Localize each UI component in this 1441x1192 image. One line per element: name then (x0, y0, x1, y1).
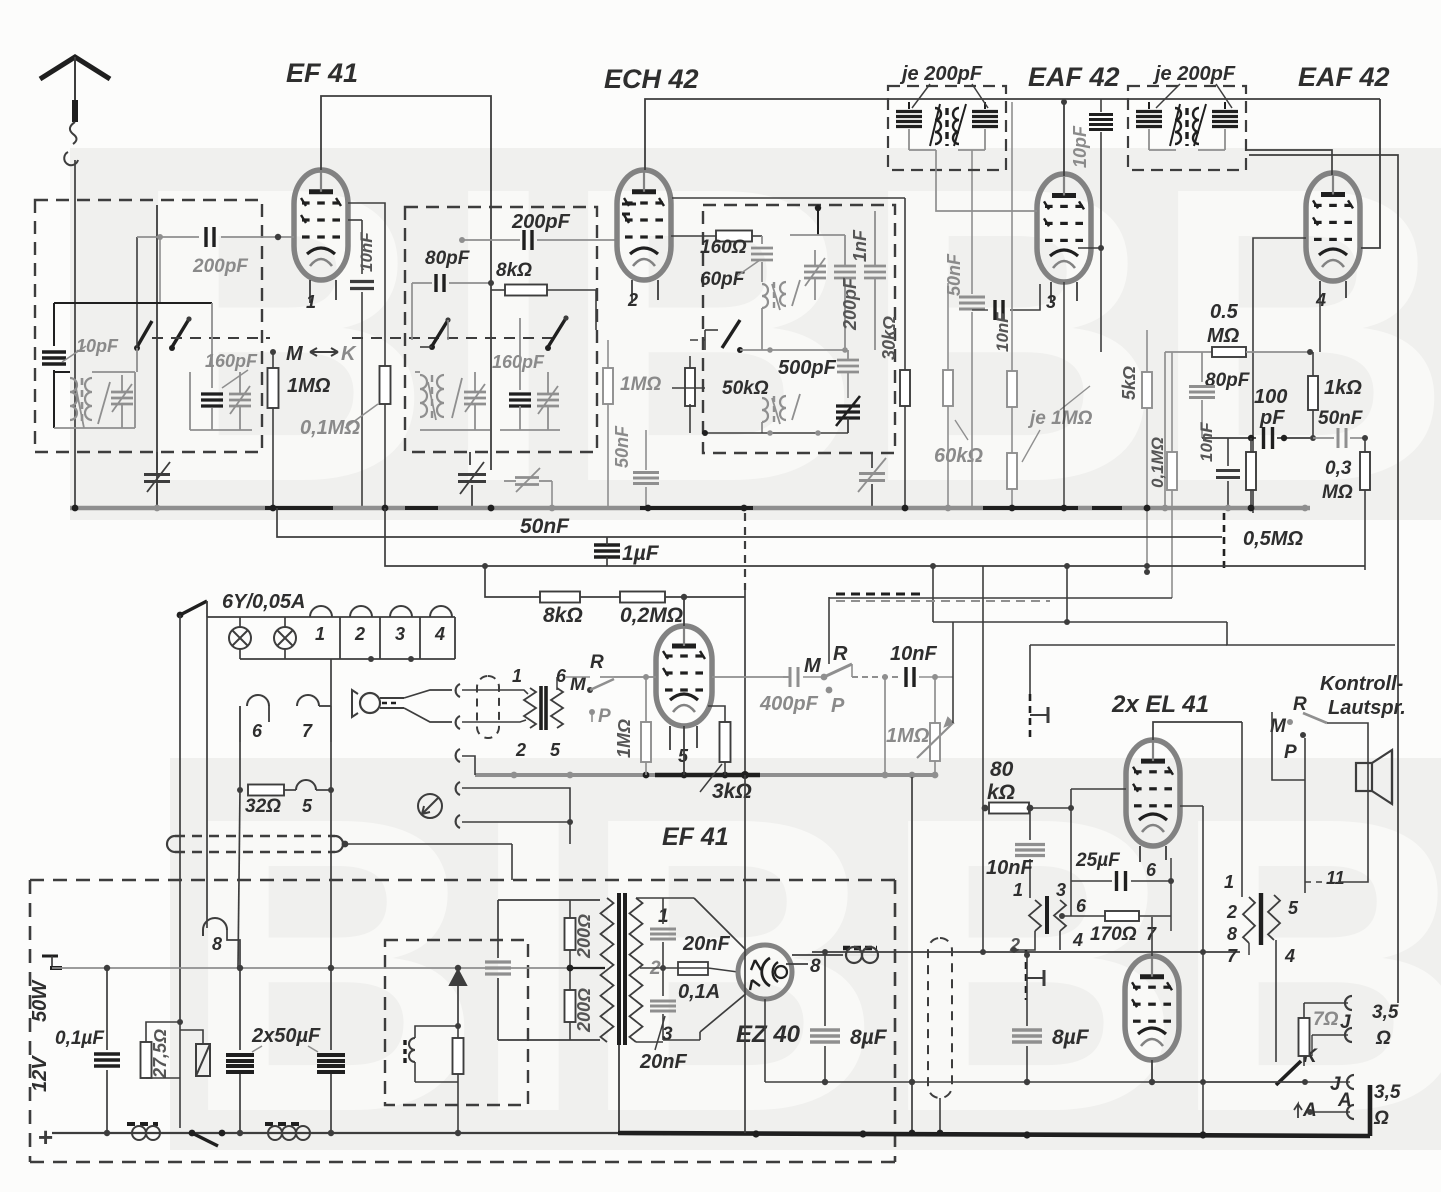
transformer primary loop (498, 899, 600, 901)
band switch linkage dashed (152, 337, 270, 339)
IF box 3 (dashed) (703, 205, 895, 453)
return rail mid (764, 999, 766, 1082)
svg-text:EAF 42: EAF 42 (1028, 62, 1120, 92)
svg-text:8kΩ: 8kΩ (543, 604, 583, 627)
resistor 1M grid V1 (272, 352, 274, 368)
supply switch (189, 1130, 196, 1137)
svg-text:10pF: 10pF (76, 336, 119, 356)
secondary to switch (1275, 940, 1277, 1062)
wire V1 anode top (321, 96, 491, 470)
svg-text:50nF: 50nF (1318, 408, 1364, 429)
svg-text:200pF: 200pF (840, 277, 860, 331)
wire heater drop 2 (206, 617, 208, 922)
resistors je 1M (1011, 102, 1013, 371)
dial lamp 1 (229, 627, 251, 649)
tube V7 EL41 lower (1125, 956, 1179, 1060)
pin 5 label V5 (669, 726, 671, 750)
box3 inner wires (817, 207, 819, 235)
svg-text:8: 8 (810, 956, 821, 977)
svg-text:60pF: 60pF (700, 269, 746, 290)
osc switch b (548, 318, 566, 347)
svg-text:25µF: 25µF (1075, 850, 1121, 871)
svg-text:160pF: 160pF (492, 352, 545, 372)
svg-text:2: 2 (354, 624, 365, 644)
wire oscillator top (54, 302, 212, 304)
tube V1 EF41 (294, 170, 348, 280)
capacitor 50nF IF (971, 150, 973, 294)
svg-text:3: 3 (1046, 292, 1056, 312)
resistor 0.2M AF (620, 592, 665, 603)
resistor 1M osc (607, 340, 609, 368)
pin V7 bottom (1151, 1060, 1153, 1082)
wires to EZ40 (694, 898, 748, 952)
svg-text:1MΩ: 1MΩ (287, 375, 331, 397)
tube V4 EAF42 (1306, 173, 1360, 281)
box3 bottom wire (705, 432, 848, 434)
pin 6 label V6 (1139, 846, 1141, 862)
switch R-M-P detector (821, 674, 828, 681)
svg-text:0.5: 0.5 (1210, 301, 1239, 323)
svg-text:7: 7 (1227, 946, 1238, 966)
band switch contact a (137, 321, 152, 347)
V7 grid cap symbol (1025, 950, 1028, 1000)
svg-text:1kΩ: 1kΩ (1324, 377, 1362, 399)
resistor 7R (1299, 1018, 1310, 1056)
svg-text:0,1MΩ: 0,1MΩ (1148, 437, 1167, 488)
svg-text:1: 1 (315, 624, 325, 644)
wire V3 topcap (1063, 102, 1065, 176)
capacitor 1uF (594, 543, 620, 546)
svg-text:160pF: 160pF (205, 351, 258, 371)
variable capacitor C1a (111, 391, 133, 394)
svg-text:170Ω: 170Ω (1090, 924, 1137, 945)
svg-text:50W: 50W (29, 979, 51, 1022)
svg-text:0,3: 0,3 (1325, 458, 1352, 479)
watermark band top (70, 148, 1441, 520)
antenna symbol (40, 57, 110, 79)
wire V6 topcap (1153, 722, 1242, 740)
svg-text:4: 4 (434, 624, 445, 644)
power switch lamp row (177, 612, 184, 619)
svg-text:A: A (1337, 1090, 1352, 1111)
variable cap osc2 (804, 265, 826, 268)
svg-text:10nF: 10nF (357, 232, 376, 272)
svg-text:8: 8 (1227, 924, 1237, 944)
svg-text:1: 1 (1224, 872, 1234, 892)
wire jack1 to trafo (462, 690, 528, 694)
primary capacitor (497, 900, 499, 958)
cap 200pF vert label (834, 265, 856, 268)
osc trimmer b (515, 476, 539, 479)
pin 1 label V1 (309, 280, 311, 303)
svg-text:1: 1 (1013, 880, 1023, 900)
wire V2 anode top (645, 99, 1380, 170)
svg-text:10nF: 10nF (993, 312, 1012, 352)
pin 4 label V4 (1319, 281, 1321, 300)
svg-text:80: 80 (990, 758, 1014, 781)
svg-text:je 1MΩ: je 1MΩ (1027, 408, 1093, 429)
capacitor 8uF left (824, 955, 826, 1026)
svg-text:5: 5 (302, 796, 313, 816)
svg-text:100: 100 (1254, 386, 1287, 408)
wire IF2 to V4 topcap (1245, 150, 1332, 175)
svg-text:R: R (1293, 694, 1307, 715)
band filter box 1 (dashed) (35, 200, 262, 452)
svg-text:8µF: 8µF (1052, 1026, 1090, 1049)
svg-text:400pF: 400pF (759, 693, 819, 715)
svg-text:2: 2 (627, 290, 638, 310)
svg-text:11: 11 (1326, 868, 1345, 888)
capacitor 10nF AF couple (851, 664, 853, 677)
osc switch a (432, 320, 448, 346)
svg-text:+: + (38, 1122, 53, 1152)
battery minus terminal (42, 955, 58, 958)
svg-text:M: M (286, 343, 304, 365)
svg-text:8µF: 8µF (850, 1026, 888, 1049)
wire AF to output (982, 566, 984, 952)
jack ground symbol (418, 794, 442, 818)
svg-text:M: M (804, 655, 822, 677)
svg-text:2x50µF: 2x50µF (251, 1025, 321, 1047)
svg-text:R: R (833, 643, 848, 665)
svg-text:20nF: 20nF (639, 1051, 687, 1073)
svg-text:1MΩ: 1MΩ (614, 719, 634, 758)
svg-text:200Ω: 200Ω (574, 914, 594, 959)
svg-text:pF: pF (1259, 407, 1285, 429)
cap 1nF (864, 265, 886, 268)
resistor 60k (947, 283, 949, 370)
svg-text:30kΩ: 30kΩ (879, 316, 899, 360)
antenna coil L1 with core (54, 371, 70, 373)
wire B+ line (812, 951, 1240, 953)
wire IF1 to V3 grid (936, 150, 1037, 211)
svg-text:EF 41: EF 41 (662, 823, 729, 851)
svg-text:3: 3 (1056, 880, 1066, 900)
box3 switch (722, 320, 740, 348)
secondary pin1 (636, 897, 663, 899)
svg-text:20nF: 20nF (682, 933, 730, 955)
capacitor 10nF V1 (348, 219, 362, 221)
svg-text:5: 5 (1288, 898, 1299, 918)
capacitor 10nF det (972, 309, 988, 311)
svg-text:160Ω: 160Ω (700, 237, 747, 258)
tube V2 ECH42 (617, 170, 671, 280)
tube V6 EL41 upper (1126, 740, 1180, 846)
svg-text:0,5MΩ: 0,5MΩ (1243, 528, 1303, 550)
resistor 8k AF (485, 566, 540, 597)
svg-text:6: 6 (252, 721, 263, 741)
variable cap 500pF black (836, 404, 860, 407)
capacitor 20nF top (662, 898, 664, 924)
svg-text:EF 41: EF 41 (286, 58, 358, 88)
svg-text:200pF: 200pF (511, 211, 571, 233)
capacitor 20nF bottom (662, 968, 664, 996)
resistor 30k (904, 198, 906, 370)
resistor 1M AF grid (643, 674, 649, 680)
svg-text:200Ω: 200Ω (574, 988, 594, 1033)
wire screen drop (911, 777, 913, 1133)
svg-text:60kΩ: 60kΩ (934, 445, 983, 467)
svg-text:je 200pF: je 200pF (1152, 63, 1236, 85)
filter choke minus 2 (265, 1122, 303, 1126)
svg-text:ECH 42: ECH 42 (604, 64, 699, 94)
capacitor 10nF output (1029, 645, 1031, 694)
cable shield phono (477, 676, 499, 738)
wire jack3 (462, 756, 475, 775)
svg-text:4: 4 (1072, 930, 1083, 950)
svg-text:2x EL 41: 2x EL 41 (1111, 691, 1209, 718)
gang trimmer AM (871, 453, 873, 468)
bus AVC (thick gray) (70, 506, 1310, 511)
V5 grid wire (600, 676, 656, 678)
svg-text:0,1A: 0,1A (678, 981, 720, 1003)
main ground bus (618, 1133, 1370, 1136)
IF coil pair box3 (762, 284, 768, 308)
output jacks upper (1304, 1002, 1348, 1004)
svg-text:P: P (598, 706, 611, 727)
svg-text:10nF: 10nF (890, 643, 937, 665)
svg-text:Kontroll-: Kontroll- (1320, 673, 1404, 695)
svg-text:MΩ: MΩ (1322, 482, 1353, 503)
capacitor 10pF (53, 303, 55, 346)
capacitor 200pF input (157, 234, 163, 240)
svg-text:MΩ: MΩ (1207, 325, 1240, 347)
svg-text:3,5: 3,5 (1374, 1082, 1401, 1103)
tube V5 EF41 (656, 626, 712, 726)
svg-text:3: 3 (662, 1024, 673, 1045)
svg-text:12V: 12V (29, 1055, 51, 1092)
bus Y7 heater/cathode (475, 773, 655, 777)
svg-text:80pF: 80pF (425, 248, 471, 269)
wire V7 return (1152, 1081, 1305, 1083)
wire V2 grid2 line (672, 197, 905, 199)
wire heater drop 1 (179, 615, 181, 1022)
svg-text:7Ω: 7Ω (1313, 1009, 1339, 1030)
minus bottom rail (52, 1132, 618, 1134)
svg-text:J: J (1340, 1012, 1351, 1033)
wire box3 mid (740, 349, 845, 351)
band switch contact b (172, 319, 189, 347)
wire jack2 to trafo (462, 720, 526, 722)
svg-text:3,5: 3,5 (1372, 1002, 1399, 1023)
svg-text:8: 8 (212, 934, 222, 954)
speaker change switch (1276, 1061, 1301, 1085)
svg-text:0,1µF: 0,1µF (55, 1028, 105, 1049)
svg-text:5kΩ: 5kΩ (1119, 366, 1139, 400)
lamp return bus (240, 658, 455, 660)
svg-text:Lautspr.: Lautspr. (1328, 697, 1406, 719)
wire grid V1 left end (137, 236, 160, 238)
svg-text:Ω: Ω (1373, 1108, 1389, 1129)
IF transformer 2 box (1128, 86, 1246, 170)
trimmer below box1 (156, 452, 158, 470)
svg-text:2: 2 (515, 740, 526, 760)
svg-text:1MΩ: 1MΩ (886, 725, 930, 747)
svg-text:10pF: 10pF (1070, 125, 1090, 168)
wire IF2 right to long vert (1249, 155, 1398, 1003)
capacitor 400pF (789, 667, 792, 687)
svg-text:50nF: 50nF (944, 253, 964, 296)
svg-text:I: I (440, 101, 557, 570)
svg-text:1MΩ: 1MΩ (620, 374, 661, 395)
osc trimmer a (469, 452, 471, 465)
interstage transformer (1029, 900, 1041, 931)
svg-text:P: P (1284, 742, 1297, 763)
lamp bus (207, 616, 455, 618)
V2 hexode extra bars (622, 203, 636, 206)
wire V4 anode right (1361, 99, 1380, 248)
svg-text:50nF: 50nF (520, 515, 570, 538)
wire jack5 (462, 821, 570, 823)
resistor 32R (239, 742, 241, 790)
svg-text:10nF: 10nF (986, 857, 1033, 879)
vibrator dashed box (385, 940, 528, 1105)
phono jacks (456, 684, 460, 697)
wire heater drop 4 (238, 790, 240, 968)
svg-text:2: 2 (1226, 902, 1237, 922)
svg-text:6Y/0,05A: 6Y/0,05A (222, 591, 305, 613)
svg-text:6: 6 (1076, 896, 1087, 916)
tube V8 EZ40 (738, 945, 792, 999)
wire jack4 (462, 788, 570, 844)
svg-text:K: K (341, 343, 357, 365)
capacitor 10pF det (1100, 99, 1102, 112)
osc coil 2 (762, 398, 768, 422)
svg-text:4: 4 (1284, 946, 1295, 966)
wire V1 screen (348, 203, 385, 366)
svg-text:3: 3 (395, 624, 405, 644)
fuse 8 lamp (206, 922, 208, 928)
shield dashed row (836, 593, 920, 596)
variable capacitor C1b (229, 393, 251, 396)
osc variable cap (464, 391, 486, 394)
speaker (1356, 763, 1372, 791)
wire V5 top (683, 597, 685, 626)
svg-text:1: 1 (512, 666, 522, 686)
wire x745 drop (744, 775, 746, 1133)
line Y6 (1227, 622, 1395, 645)
buzzer coil (415, 1026, 458, 1038)
IF transformer 1 box (888, 86, 1006, 170)
svg-text:1: 1 (306, 292, 316, 312)
vibrator diode (450, 970, 466, 985)
pin 2 label V2 (631, 280, 633, 303)
watermark band bottom (170, 758, 1441, 1150)
phono cartridge (360, 693, 380, 713)
wire V6 screen drop (1180, 805, 1203, 807)
wire V4 grid left (1253, 238, 1306, 513)
svg-text:P: P (831, 695, 845, 717)
filter choke minus 1 (127, 1122, 158, 1126)
svg-text:je 200pF: je 200pF (899, 63, 983, 85)
svg-text:B: B (560, 101, 863, 570)
pot 1M volume (882, 674, 888, 680)
output jacks lower (1305, 1081, 1350, 1083)
wire heater drop 3 (330, 659, 332, 706)
svg-text:50kΩ: 50kΩ (722, 378, 769, 399)
svg-text:500pF: 500pF (778, 357, 837, 379)
capacitor 50nF osc (645, 430, 647, 470)
power supply dashed box (30, 879, 895, 882)
svg-text:1µF: 1µF (622, 542, 660, 565)
svg-text:8kΩ: 8kΩ (496, 260, 532, 281)
wire V6 grid (1071, 788, 1126, 790)
shielded cable to dial (175, 835, 335, 837)
svg-text:200pF: 200pF (192, 256, 249, 277)
line Y4 (829, 597, 1172, 599)
oscillator box 2 (dashed) (405, 207, 597, 452)
capacitor 8uF right (1026, 955, 1028, 1026)
svg-text:kΩ: kΩ (987, 781, 1015, 804)
svg-text:1nF: 1nF (850, 229, 870, 262)
resistor 160R (671, 235, 716, 237)
resistor 0.1M cathode V1 (380, 366, 391, 404)
svg-text:7: 7 (302, 721, 313, 741)
V5 cathode to bus (683, 726, 685, 775)
filter choke B+ (792, 954, 843, 956)
driver transformer (524, 688, 536, 728)
svg-text:27,5Ω: 27,5Ω (150, 1029, 170, 1079)
pin 3 label V3 (1050, 282, 1052, 303)
vibrator reed (196, 1044, 210, 1076)
svg-text:B: B (130, 101, 433, 570)
capacitor 160pF fixed (211, 303, 213, 388)
svg-text:EAF 42: EAF 42 (1298, 62, 1390, 92)
svg-text:6: 6 (1146, 860, 1157, 880)
svg-text:Ω: Ω (1375, 1028, 1391, 1049)
heater winding taps (310, 606, 332, 617)
svg-text:0,1MΩ: 0,1MΩ (300, 417, 360, 439)
svg-text:10nF: 10nF (1197, 422, 1216, 462)
supply minus rail (52, 967, 605, 969)
dial lamp 2 (274, 627, 296, 649)
line Y2 with 1uF cap (277, 508, 1222, 537)
antenna cable dashed (928, 938, 952, 1098)
line Y3 (385, 508, 1365, 566)
svg-text:5: 5 (550, 740, 561, 760)
line Y5 (933, 621, 1227, 623)
osc coil tank (420, 375, 427, 417)
heater coil 6-7 (247, 695, 269, 706)
svg-text:32Ω: 32Ω (245, 796, 281, 817)
resistor 0.5M af (1246, 452, 1256, 490)
svg-text:50nF: 50nF (612, 425, 632, 468)
buzzer resistor (457, 1026, 459, 1038)
svg-text:0,2MΩ: 0,2MΩ (620, 604, 683, 627)
power transformer windings (601, 898, 614, 1042)
resistor 3k cathode (708, 706, 725, 722)
tube V3 EAF42 (1037, 174, 1091, 282)
svg-text:R: R (590, 652, 604, 673)
